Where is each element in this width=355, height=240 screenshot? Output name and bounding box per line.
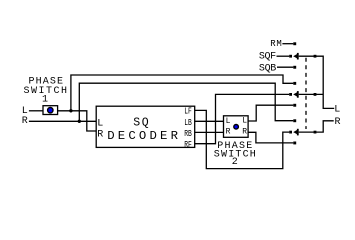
- junction dot A: [69, 109, 72, 112]
- wire mid patch right: [299, 93, 324, 95]
- wire L input: [29, 110, 43, 112]
- wire switch2 right R down: [248, 132, 293, 143]
- wire RM: [282, 43, 293, 45]
- square R patch line: [314, 131, 317, 134]
- jack RM: [293, 42, 296, 45]
- svg-text:L: L: [242, 117, 247, 126]
- svg-text:SQB: SQB: [259, 64, 276, 75]
- wire SQB: [277, 66, 293, 68]
- blue dot switch 1: [48, 108, 53, 113]
- svg-text:LF: LF: [184, 106, 192, 116]
- wire SQF: [277, 55, 290, 57]
- jack mid patch: [289, 93, 292, 96]
- svg-text:RM: RM: [270, 39, 282, 49]
- svg-text:L: L: [226, 117, 231, 126]
- dashed separation line: [305, 58, 307, 129]
- jack switch2 R: [293, 142, 296, 145]
- svg-text:RF: RF: [184, 140, 192, 150]
- svg-text:2: 2: [232, 157, 238, 168]
- wire RF up to patch: [195, 94, 290, 143]
- svg-text:R: R: [22, 116, 28, 127]
- wire R patch right: [299, 121, 334, 132]
- wire RB to phase switch 2: [195, 131, 224, 133]
- wire L from switch to decoder R input (jog): [58, 111, 97, 131]
- jack SQB: [293, 66, 296, 69]
- svg-text:SQ: SQ: [133, 116, 149, 129]
- jack switch2 L: [293, 104, 296, 107]
- phase switch 2 inner box: [224, 116, 249, 138]
- svg-text:1: 1: [42, 95, 48, 106]
- jack wire A: [293, 82, 296, 85]
- blue dot switch 2: [234, 125, 239, 130]
- wire B feedback top: [79, 83, 293, 121]
- phase switch 1 box: [43, 106, 58, 115]
- wire SQF patch right: [299, 56, 335, 108]
- svg-text:SQF: SQF: [259, 52, 276, 63]
- jack R patch: [289, 131, 292, 134]
- svg-text:L: L: [334, 105, 340, 116]
- svg-text:L: L: [97, 119, 103, 130]
- svg-text:LB: LB: [184, 118, 192, 128]
- wire LB to phase switch 2: [195, 120, 224, 122]
- svg-text:R: R: [97, 129, 103, 140]
- wire LF output bottom loop: [195, 110, 290, 168]
- plug SQF: [293, 54, 297, 59]
- plug R patch: [293, 130, 297, 135]
- square SQF line: [314, 55, 317, 58]
- svg-text:R: R: [242, 128, 247, 137]
- wire switch2 right L up: [248, 105, 293, 121]
- jack wire B: [293, 119, 296, 122]
- jack SQF: [289, 55, 292, 58]
- svg-text:RB: RB: [184, 129, 192, 139]
- junction dot B: [78, 120, 81, 123]
- SQ decoder box: [96, 106, 195, 147]
- wire R input to decoder L input: [29, 120, 96, 122]
- wire A feedback top: [71, 75, 293, 111]
- svg-text:R: R: [226, 128, 231, 137]
- plug mid patch: [293, 92, 297, 97]
- square mid patch line: [314, 93, 317, 96]
- svg-text:R: R: [335, 117, 341, 128]
